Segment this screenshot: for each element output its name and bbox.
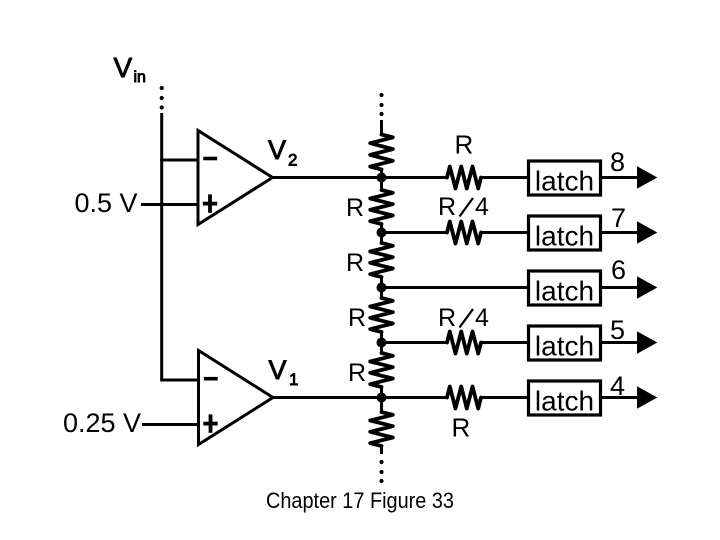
minus sign U1 (204, 377, 218, 381)
svg-text:R: R (438, 193, 456, 221)
arrow output 7 (637, 221, 657, 243)
svg-text:R: R (455, 130, 474, 160)
resistor R ladder 8-7 (370, 190, 393, 224)
svg-text:5: 5 (610, 315, 625, 345)
latch 6 (529, 271, 601, 307)
svg-text:latch: latch (535, 166, 594, 197)
wire latch 8 to arrow (602, 176, 639, 179)
wire row 7 to latch (481, 231, 528, 234)
op-amp U1 (lower comparator) (199, 351, 274, 445)
wire Vin vertical (160, 113, 163, 380)
svg-text:V: V (268, 135, 286, 165)
node row 5 (377, 338, 387, 348)
svg-text:R: R (346, 194, 364, 222)
svg-text:V: V (114, 52, 133, 83)
wire ladder top stub (380, 120, 383, 134)
svg-text:latch: latch (535, 276, 594, 307)
wire row 4 to latch (481, 396, 528, 399)
minus sign U2 (203, 157, 217, 161)
wire row 5 to latch (481, 341, 528, 344)
svg-text:V: V (269, 355, 287, 385)
node row 4 (377, 393, 387, 403)
label R/4 row 7 (438, 193, 489, 221)
svg-text:4: 4 (610, 371, 625, 401)
resistor ladder top (370, 135, 393, 170)
label R/4 row 5 (438, 304, 489, 332)
svg-text:4: 4 (475, 193, 489, 221)
svg-text:0.5 V: 0.5 V (75, 188, 138, 218)
wire stub to node 7 (380, 224, 383, 243)
svg-text:R: R (348, 304, 366, 332)
svg-text:latch: latch (535, 221, 594, 252)
svg-text:4: 4 (475, 304, 489, 332)
wire latch 7 to arrow (602, 231, 639, 234)
node row 8 (377, 173, 387, 183)
resistor R ladder 5-4 (370, 353, 393, 387)
svg-text:6: 6 (611, 255, 626, 285)
node row 6 (377, 283, 387, 293)
wire stub to node 4 (380, 387, 383, 412)
svg-text:latch: latch (535, 386, 594, 417)
wire ladder dotted bottom (379, 460, 383, 483)
plus sign U2 (203, 194, 217, 212)
label V2 (268, 135, 297, 170)
arrow output 6 (637, 276, 657, 298)
wire latch 5 to arrow (602, 341, 639, 344)
wire stub to node 5 (380, 332, 383, 353)
svg-text:R: R (438, 304, 456, 332)
node row 7 (377, 228, 387, 238)
wire V1 output to row 4 (273, 396, 447, 399)
label V1 (269, 355, 299, 389)
resistor R row 8 (447, 167, 481, 189)
svg-text:2: 2 (288, 151, 297, 170)
wire row 7 (382, 231, 447, 234)
latch 5 (529, 326, 601, 362)
svg-text:in: in (134, 69, 146, 86)
svg-text:0.25 V: 0.25 V (63, 408, 141, 438)
wire ladder bottom stub (380, 446, 383, 454)
latch 7 (529, 216, 601, 252)
svg-text:7: 7 (611, 203, 626, 233)
latch 4 (529, 381, 601, 417)
plus sign U1 (203, 414, 217, 432)
svg-text:1: 1 (289, 370, 298, 389)
wire row 8 to latch (481, 176, 528, 179)
resistor R ladder 7-6 (370, 243, 393, 277)
op-amp U2 (upper comparator) (198, 131, 273, 225)
arrow output 8 (637, 166, 657, 188)
node Vin label (114, 52, 146, 86)
resistor ladder bottom (370, 412, 393, 446)
svg-text:8: 8 (610, 147, 625, 177)
svg-text:R: R (348, 359, 366, 387)
arrow output 4 (637, 386, 657, 408)
wire 0.25V to plus input (142, 423, 199, 426)
wire stub to node 6 (380, 277, 383, 298)
wire row 5 (382, 341, 447, 344)
svg-text:R: R (346, 249, 364, 277)
wire stub to node 8 (380, 170, 383, 191)
resistor R/4 row 7 (447, 222, 481, 244)
resistor R/4 row 5 (447, 332, 481, 354)
svg-text:R: R (452, 413, 471, 443)
resistor R ladder 6-5 (370, 298, 393, 332)
wire Vin dotted top (160, 86, 164, 110)
svg-text:latch: latch (535, 331, 594, 362)
wire lower minus input (160, 379, 199, 382)
wire latch 4 to arrow (602, 396, 639, 399)
arrow output 5 (637, 331, 657, 353)
latch 8 (529, 161, 601, 197)
wire upper minus input (160, 159, 198, 162)
svg-text:Chapter 17 Figure 33: Chapter 17 Figure 33 (266, 488, 454, 513)
resistor R row 4 (447, 387, 481, 409)
wire V2 output to row 8 (272, 176, 446, 179)
wire row 6 (382, 286, 529, 289)
wire latch 6 to arrow (602, 286, 639, 289)
wire ladder dotted top (379, 93, 383, 116)
wire 0.5V to plus input (141, 203, 198, 206)
